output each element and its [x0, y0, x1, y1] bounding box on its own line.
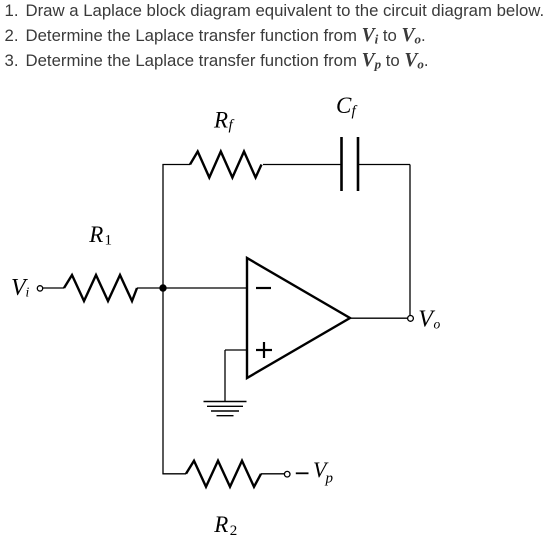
label Rf: [213, 108, 235, 134]
wire: input node to op-amp inverting input: [163, 287, 247, 289]
svg-text:f: f: [229, 118, 235, 134]
wire: R2 to -Vp terminal: [261, 473, 284, 475]
svg-text:p: p: [325, 471, 334, 487]
wire: R1 to input node: [137, 287, 163, 289]
node: junction dot at inverting input: [159, 284, 166, 291]
resistor R1: [64, 275, 137, 301]
wire: top rail from corner to Rf: [162, 164, 190, 166]
svg-text:f: f: [352, 104, 358, 120]
label R1: [88, 222, 112, 249]
op-amp plus pin mark: [256, 342, 272, 358]
capacitor Cf: [342, 137, 359, 191]
svg-text:C: C: [336, 93, 352, 118]
label Vo: [418, 307, 440, 333]
wire: ground stem: [224, 350, 226, 401]
wire: left vertical from input node down to bottom rail: [162, 288, 164, 474]
svg-text:1: 1: [105, 233, 113, 249]
resistor R2: [186, 461, 261, 487]
svg-text:R: R: [213, 108, 228, 133]
terminal Vi (open circle): [37, 286, 42, 291]
svg-text:R: R: [213, 512, 228, 537]
svg-text:i: i: [26, 285, 30, 300]
wire: op-amp output to Vo terminal: [350, 317, 407, 319]
label Vi: [11, 275, 30, 301]
label -Vp: [296, 457, 334, 487]
wire: bottom rail from left vertical to R2: [162, 473, 186, 475]
wire: top rail from Cf to right corner: [358, 164, 410, 166]
wire: op-amp non-inverting input: [225, 349, 247, 351]
svg-text:o: o: [434, 317, 441, 332]
wire: right vertical from top rail down to Vo terminal: [409, 165, 411, 316]
op-amp minus pin mark: [256, 287, 271, 289]
wire: top rail from Rf to Cf: [263, 164, 341, 166]
terminal Vo (open circle): [408, 316, 414, 322]
terminal -Vp (open circle): [284, 471, 290, 477]
label Cf: [336, 93, 358, 120]
ground: [204, 402, 247, 416]
resistor Rf: [190, 152, 262, 178]
wire: Vi terminal to R1: [43, 287, 64, 289]
wire: left vertical from top-left corner down to input node: [162, 165, 164, 289]
label R2: [213, 512, 237, 539]
svg-text:2: 2: [230, 523, 238, 539]
problem statement text: [0, 0, 544, 73]
svg-text:R: R: [88, 222, 103, 247]
op-amp U1: [247, 258, 350, 378]
